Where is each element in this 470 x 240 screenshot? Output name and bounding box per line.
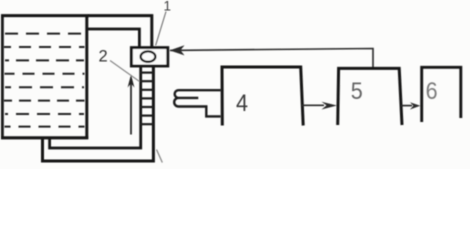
heating coil at block 4 <box>174 90 220 116</box>
heater ladder rung 4 <box>140 97 154 99</box>
liquid dash row 6 <box>4 100 85 102</box>
svg-text:4: 4 <box>236 90 248 117</box>
liquid dash row 2 <box>4 46 85 48</box>
liquid dash row 3 <box>5 59 84 61</box>
liquid dash row 1 <box>5 33 84 35</box>
wire 5 to 6 <box>401 105 412 107</box>
top pipe outer line <box>88 16 152 47</box>
liquid dash row 4 <box>5 73 85 75</box>
liquid dash row 7 <box>5 113 84 115</box>
pump rotor ellipse <box>141 51 156 61</box>
tank bottom edge <box>1 136 88 139</box>
tank left wall <box>1 15 4 140</box>
wire 4 to 5 <box>302 104 324 106</box>
heater ladder rung 3 <box>140 89 154 91</box>
pump box 1 <box>131 48 167 66</box>
tank top edge <box>1 14 89 17</box>
block 5 <box>338 68 402 125</box>
bottom pipe outer line <box>43 66 154 161</box>
flow up arrow head <box>128 75 135 88</box>
tank right wall <box>85 15 88 139</box>
arrowhead into block 5 <box>322 102 338 110</box>
heater ladder rung 1 <box>140 71 154 73</box>
heater ladder rung 7 <box>140 123 154 125</box>
feedback wire from block 5 to pump <box>170 49 373 68</box>
block 4 <box>222 67 303 126</box>
liquid dash row 5 <box>5 86 84 88</box>
arrowhead into pump <box>170 45 185 55</box>
top pipe inner line <box>88 29 139 47</box>
stray tick mark <box>157 150 163 163</box>
svg-text:5: 5 <box>351 78 363 105</box>
leader line for 1 <box>156 12 166 46</box>
heater ladder rung 2 <box>140 80 154 82</box>
heater ladder rung 6 <box>140 114 154 116</box>
liquid dash row 8 <box>5 126 85 128</box>
svg-text:2: 2 <box>99 48 108 66</box>
flow up arrow shaft <box>130 79 132 135</box>
svg-text:1: 1 <box>164 0 172 13</box>
svg-text:6: 6 <box>426 78 438 105</box>
bottom pipe inner line <box>50 66 141 148</box>
leader line for 2 <box>110 61 140 82</box>
heater ladder rung 5 <box>140 106 154 108</box>
arrowhead into block 6 <box>410 102 420 109</box>
block 6 <box>422 67 461 122</box>
